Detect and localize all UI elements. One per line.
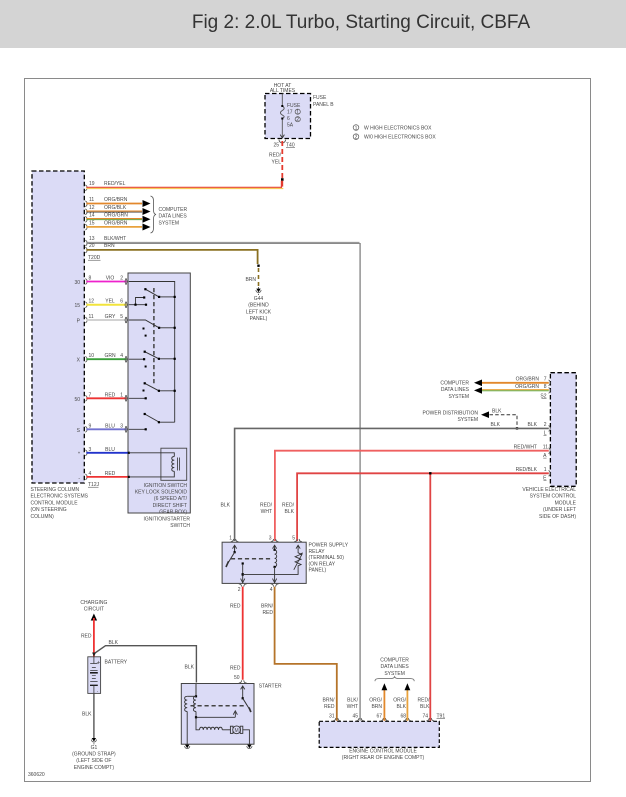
wire RED battery to charging circuit (81, 618, 94, 657)
svg-text:360620: 360620 (28, 772, 45, 778)
svg-text:RED/: RED/ (282, 503, 295, 509)
svg-text:DATA LINES: DATA LINES (441, 387, 470, 393)
module: steering column electronic systems control module (31, 171, 89, 520)
starter switch blade (242, 690, 251, 712)
relay pin 3 entry (269, 536, 279, 551)
svg-text:BLK: BLK (528, 422, 538, 428)
svg-text:RED/: RED/ (260, 503, 273, 509)
svg-text:DIRECT SHIFT: DIRECT SHIFT (153, 503, 187, 509)
svg-text:15: 15 (89, 220, 95, 226)
fuse output terminal 25 / connector T40 (273, 135, 295, 149)
svg-text:CHARGING: CHARGING (80, 600, 107, 606)
svg-text:11: 11 (89, 197, 94, 203)
svg-text:BATTERY: BATTERY (105, 660, 128, 666)
svg-text:50: 50 (74, 397, 80, 403)
svg-text:CIRCUIT: CIRCUIT (84, 607, 104, 613)
connector label T12J (88, 482, 100, 488)
svg-text:ENGINE COMPT): ENGINE COMPT) (74, 765, 115, 771)
wire GRY pin 11->5 (terminal P) (77, 314, 127, 325)
svg-text:(ON STEERING: (ON STEERING (31, 507, 67, 513)
svg-text:68: 68 (400, 714, 406, 720)
svg-text:2: 2 (355, 135, 358, 141)
svg-text:(UNDER LEFT: (UNDER LEFT (543, 507, 576, 513)
svg-text:WHT: WHT (347, 704, 358, 710)
wire BRN/RED relay pin4 to ECM pin 31 (261, 587, 337, 721)
svg-text:IGNITION SWITCH: IGNITION SWITCH (144, 483, 188, 489)
svg-text:RED: RED (230, 665, 241, 671)
ignition switch terminal 15 contact stub (129, 296, 147, 305)
starter motor M (230, 726, 249, 742)
svg-text:SYSTEM CONTROL: SYSTEM CONTROL (530, 494, 577, 500)
svg-text:GEAR BOX): GEAR BOX) (159, 509, 187, 515)
label computer data lines system (right) (440, 381, 469, 400)
wire BRN pin 20 to ground G44 (85, 243, 259, 287)
svg-text:50: 50 (234, 675, 240, 681)
diagram frame (25, 79, 591, 782)
starter solenoid windings (185, 684, 197, 742)
svg-text:M: M (235, 728, 239, 734)
starter ground right (247, 742, 252, 749)
svg-text:(TERMINAL 50): (TERMINAL 50) (309, 555, 345, 561)
svg-text:RED: RED (324, 704, 335, 710)
relay pin 5 entry (292, 536, 302, 551)
svg-text:4: 4 (270, 587, 273, 593)
wire YEL pin 12->6 (terminal 15) (74, 299, 127, 310)
wire RED relay pin2 to starter terminal 50 (230, 587, 243, 681)
svg-text:20: 20 (89, 243, 95, 249)
svg-text:W HIGH ELECTRONICS BOX: W HIGH ELECTRONICS BOX (364, 126, 432, 132)
svg-text:ORG/BLK: ORG/BLK (104, 205, 127, 211)
svg-text:5: 5 (292, 536, 295, 542)
fuse F17 (5A) (280, 94, 301, 139)
svg-text:BRN/: BRN/ (323, 698, 336, 704)
ground G44 (246, 287, 272, 322)
svg-text:STEERING COLUMN: STEERING COLUMN (31, 487, 80, 493)
svg-text:*: * (78, 451, 80, 457)
power supply relay box (222, 542, 349, 583)
svg-text:FUSE: FUSE (313, 95, 327, 101)
svg-text:RED/BLK: RED/BLK (516, 467, 538, 473)
relay coil drive dashed link (231, 558, 272, 560)
starter terminal 50 entry (239, 680, 247, 690)
svg-text:YEL: YEL (272, 160, 282, 166)
svg-text:FUSE: FUSE (287, 103, 301, 109)
svg-text:STARTER: STARTER (259, 684, 282, 690)
svg-text:BLK: BLK (420, 704, 430, 710)
svg-text:BLK: BLK (185, 664, 195, 670)
svg-text:BLK: BLK (285, 509, 295, 515)
relay fixed contact to pin 2 (241, 562, 245, 583)
connector label T20D (88, 255, 101, 261)
svg-text:25: 25 (273, 143, 279, 149)
svg-text:COMPUTER: COMPUTER (440, 381, 469, 387)
starter motor branch wire (196, 717, 231, 730)
svg-text:RED/WHT: RED/WHT (514, 444, 537, 450)
svg-text:1: 1 (355, 125, 358, 131)
svg-text:3: 3 (269, 536, 272, 542)
svg-text:(GROUND STRAP): (GROUND STRAP) (72, 752, 116, 758)
svg-text:2: 2 (238, 587, 241, 593)
svg-text:BLK: BLK (221, 503, 231, 509)
label power distribution system + dashed BLK stub (422, 409, 518, 430)
svg-text:31: 31 (329, 714, 335, 720)
ignition/starter switch box (128, 273, 190, 529)
svg-text:ENGINE CONTROL MODULE: ENGINE CONTROL MODULE (349, 748, 417, 754)
wire RED/YEL pin 19 (module to fuse) (85, 181, 283, 191)
svg-text:BLK: BLK (109, 640, 119, 646)
svg-text:BRN/: BRN/ (261, 604, 274, 610)
ECM pin 67 (ORG/BRN) + data lines arrow (369, 683, 388, 721)
svg-text:G1: G1 (91, 745, 98, 751)
wire GRN pin 10->4 (terminal X) (77, 353, 127, 364)
wire BLK pin 2 (relay pin1 to module) (221, 422, 551, 541)
label computer data lines system (bottom) (375, 658, 414, 682)
wire BLU pin 3 (to key lock solenoid) (78, 447, 128, 458)
svg-text:67: 67 (376, 714, 382, 720)
svg-text:6: 6 (287, 116, 290, 122)
svg-text:POWER DISTRIBUTION: POWER DISTRIBUTION (422, 411, 478, 417)
svg-text:WHT: WHT (261, 509, 272, 515)
relay pin 1 entry (229, 536, 238, 553)
svg-text:VEHICLE ELECTRICAL: VEHICLE ELECTRICAL (522, 487, 576, 493)
svg-text:30: 30 (74, 280, 80, 286)
svg-text:+: + (97, 659, 101, 666)
svg-text:14: 14 (89, 213, 95, 219)
ignition switch terminal 50 stub (129, 397, 147, 399)
starter box (181, 684, 282, 745)
relay coil (273, 549, 277, 583)
svg-text:(RIGHT REAR OF ENGINE COMPT): (RIGHT REAR OF ENGINE COMPT) (342, 755, 425, 761)
svg-text:COLUMN): COLUMN) (31, 514, 55, 520)
fuse panel B box (265, 83, 334, 139)
ignition switch contact: X terminal blade (129, 351, 176, 368)
svg-text:11: 11 (543, 444, 548, 450)
ECM pin 74 (RED/BLK) (418, 698, 435, 721)
starter switch fixed contact (195, 711, 238, 719)
svg-text:ALL TIMES: ALL TIMES (270, 88, 296, 94)
svg-text:MODULE: MODULE (555, 500, 577, 506)
svg-text:2: 2 (296, 117, 299, 123)
relay pin 2 exit (238, 584, 247, 593)
svg-text:G44: G44 (254, 296, 264, 302)
ignition switch contact: P terminal blade (129, 320, 176, 337)
svg-text:2: 2 (544, 422, 547, 428)
wire RED/BLK branch down to ECM pin 74 (429, 475, 431, 721)
ECM pin 45 (BLK/WHT) (347, 698, 364, 721)
svg-text:BLK: BLK (491, 422, 501, 428)
module: vehicle electrical system control module (522, 373, 576, 520)
svg-text:SYSTEM: SYSTEM (159, 220, 180, 226)
svg-text:CONTROL MODULE: CONTROL MODULE (31, 500, 79, 506)
svg-text:KEY LOCK SOLENOID: KEY LOCK SOLENOID (135, 490, 188, 496)
svg-text:BRN: BRN (371, 704, 382, 710)
svg-text:7: 7 (544, 377, 547, 383)
wire ORG/GRN pin 14 to computer data lines (85, 213, 150, 223)
relay pin 4 exit (270, 584, 279, 593)
svg-text:BRN: BRN (245, 277, 256, 283)
svg-text:PANEL B: PANEL B (313, 102, 334, 108)
svg-text:BLK: BLK (492, 409, 502, 415)
battery (88, 657, 128, 694)
legend circled 2: W/O HIGH ELECTRONICS BOX (353, 134, 436, 141)
svg-text:RED/YEL: RED/YEL (104, 181, 126, 187)
svg-text:RED/: RED/ (418, 698, 431, 704)
title banner (0, 0, 626, 48)
svg-text:ORG/GRN: ORG/GRN (104, 213, 128, 219)
charging circuit arrow (80, 600, 107, 621)
svg-text:1: 1 (229, 536, 232, 542)
ignition switch mechanical link (dashed) (153, 288, 155, 386)
wire ORG/BRN pin 15 to computer data lines (85, 220, 150, 230)
svg-text:SYSTEM: SYSTEM (457, 417, 478, 423)
svg-text:17: 17 (287, 110, 293, 116)
relay resistor (with arrow) (243, 550, 303, 575)
svg-text:15: 15 (74, 303, 80, 309)
svg-text:1: 1 (544, 467, 547, 473)
ECM pin 31 (BRN/RED) (323, 698, 341, 721)
svg-text:ORG/BRN: ORG/BRN (104, 220, 128, 226)
wire ORG/BLK pin 12 to computer data lines (85, 205, 150, 215)
ignition switch terminal S stub (129, 428, 147, 430)
key lock solenoid coil + core (128, 452, 180, 478)
svg-text:12: 12 (89, 205, 95, 211)
wire VIO pin 8->2 (terminal 30) (74, 276, 127, 287)
svg-text:IGNITION/STARTER: IGNITION/STARTER (144, 517, 191, 523)
brace + label computer data lines system (151, 196, 188, 233)
svg-text:BLK/WHT: BLK/WHT (104, 236, 126, 242)
svg-text:(BEHIND: (BEHIND (248, 303, 269, 309)
svg-text:POWER SUPPLY: POWER SUPPLY (309, 543, 349, 549)
ECM connector label T91 (437, 714, 446, 720)
svg-text:(LEFT SIDE OF: (LEFT SIDE OF (76, 758, 111, 764)
svg-text:RED/: RED/ (269, 153, 282, 159)
svg-text:RELAY: RELAY (309, 549, 326, 555)
svg-text:PANEL): PANEL) (250, 316, 268, 322)
svg-text:(ON RELAY: (ON RELAY (309, 561, 336, 567)
ignition switch contact: start position (30->50) (144, 288, 176, 298)
svg-text:COMPUTER: COMPUTER (159, 207, 188, 213)
engine control module box (319, 721, 439, 761)
svg-text:RED: RED (81, 634, 92, 640)
wire RED pin 7->1 (terminal 50) (74, 392, 127, 403)
svg-text:PANEL): PANEL) (309, 568, 327, 574)
wire RED/YEL dashed drop from fuse (269, 141, 284, 187)
svg-text:BLK: BLK (397, 704, 407, 710)
svg-text:DATA LINES: DATA LINES (381, 664, 410, 670)
svg-text:BRN: BRN (104, 243, 115, 249)
svg-text:BLK: BLK (82, 712, 92, 718)
wire ORG/GRN pin 8 (to computer data lines) (474, 384, 550, 399)
ECM pin 68 (ORG/BLK) + data lines arrow (393, 683, 411, 721)
wire RED/BLK pin 1 (relay pin5 to module) (282, 467, 550, 541)
key lock solenoid box (161, 448, 187, 480)
svg-text:1: 1 (296, 110, 299, 116)
legend circled 1: W HIGH ELECTRONICS BOX (353, 125, 432, 132)
svg-text:COMPUTER: COMPUTER (380, 658, 409, 664)
wire BLU pin 9->3 (terminal S) (77, 423, 127, 434)
svg-text:RED: RED (230, 604, 241, 610)
wire RED pin 4 (to key lock solenoid) (78, 471, 128, 482)
wire BLK battery to starter (92, 640, 196, 683)
svg-text:RED: RED (262, 610, 273, 616)
svg-text:ORG/BRN: ORG/BRN (516, 377, 540, 383)
wire BLK battery to ground G1 (82, 693, 94, 738)
svg-text:BLK/: BLK/ (347, 698, 358, 704)
wire RED/WHT pin 11 (relay pin3 to module) (260, 444, 550, 541)
svg-text:LEFT KICK: LEFT KICK (246, 309, 272, 315)
svg-text:45: 45 (352, 714, 358, 720)
svg-text:DATA LINES: DATA LINES (159, 214, 188, 220)
svg-text:SYSTEM: SYSTEM (448, 394, 469, 400)
svg-text:ORG/BRN: ORG/BRN (104, 197, 128, 203)
wire ORG/BRN pin 11 to computer data lines (85, 197, 150, 207)
ignition switch contact: lower blade (50) (144, 413, 175, 423)
wire BLK/WHT pin 13 (long gray, to ECM pin 45) (85, 236, 360, 721)
starter ground left (185, 742, 190, 749)
svg-text:74: 74 (422, 714, 428, 720)
svg-text:ELECTRONIC SYSTEMS: ELECTRONIC SYSTEMS (31, 494, 89, 500)
ground G1 (72, 738, 116, 771)
svg-text:5A: 5A (287, 123, 294, 129)
wire ORG/BRN pin 7 (to computer data lines) (474, 377, 550, 387)
svg-text:SIDE OF DASH): SIDE OF DASH) (539, 514, 576, 520)
svg-text:Fig 2: 2.0L Turbo, Starting Ci: Fig 2: 2.0L Turbo, Starting Circuit, CBF… (192, 12, 531, 33)
svg-text:19: 19 (89, 181, 95, 187)
svg-text:13: 13 (89, 236, 95, 242)
ignition switch contact: mid blade (143, 382, 176, 392)
svg-text:(6 SPEED A/T/: (6 SPEED A/T/ (154, 496, 188, 502)
starter switch linkage (dashed) (191, 705, 245, 707)
svg-text:ORG/: ORG/ (393, 698, 406, 704)
relay switch blade (226, 546, 236, 567)
svg-text:ORG/: ORG/ (369, 698, 382, 704)
svg-text:W/0 HIGH ELECTRONICS BOX: W/0 HIGH ELECTRONICS BOX (364, 135, 436, 141)
svg-text:SWITCH: SWITCH (170, 523, 190, 529)
ignition switch internal bus wire (terminal 30 feed) (129, 282, 175, 423)
